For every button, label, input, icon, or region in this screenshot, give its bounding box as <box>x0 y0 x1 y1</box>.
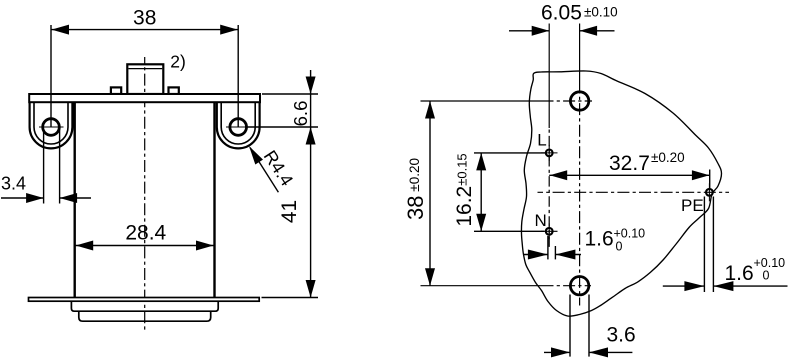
dim 32.7 extension line at PE <box>709 170 711 189</box>
svg-text:3.6: 3.6 <box>607 323 636 346</box>
hole centerline tick left <box>39 126 64 128</box>
dim 3.4 line with arrows <box>1 197 44 199</box>
bottom step 2 <box>79 311 211 321</box>
centerline vertical through holes <box>579 24 581 93</box>
mounting ear right (R4.4) <box>217 102 260 148</box>
dim 16.2 extension line at L <box>474 152 545 154</box>
centerline of left view body <box>144 57 146 330</box>
centerline horizontal through bottom hole <box>421 285 551 287</box>
dim 1.6 N extension lines <box>547 236 549 259</box>
mounting hole left d3.4 <box>43 119 60 136</box>
dim 1.6 PE line with arrows <box>663 285 705 287</box>
mounting ear left (R4.4) <box>30 102 73 148</box>
svg-text:N: N <box>535 211 547 230</box>
svg-text:0: 0 <box>616 240 623 254</box>
dim 16.2 line with arrows <box>480 153 482 231</box>
svg-text:6.05: 6.05 <box>541 1 582 24</box>
pin N circle and ticks <box>546 228 553 235</box>
small bump right on flange top <box>169 87 179 94</box>
bottom plate flange <box>29 298 260 302</box>
centerline horizontal main through PE <box>538 191 730 193</box>
dim 16.2 extension line at N <box>474 230 544 232</box>
svg-text:±0.10: ±0.10 <box>584 4 618 19</box>
svg-text:+0.10: +0.10 <box>614 227 646 241</box>
pin PE circle and tick <box>706 189 713 196</box>
dim 1.6 N line with arrows <box>523 254 548 256</box>
dim 32.7 line with arrows <box>549 174 710 176</box>
dim 3.6 line with arrows <box>544 351 570 353</box>
svg-text:L: L <box>537 131 546 150</box>
centerline vertical through pins L N <box>548 24 550 129</box>
dim 1.6 PE extension lines <box>703 197 705 293</box>
mounting hole right d3.4 <box>230 119 247 136</box>
dim 3.6 extension lines <box>569 295 571 357</box>
top protrusion (cover lug) 2) <box>127 64 163 94</box>
svg-text:±0.20: ±0.20 <box>651 150 685 165</box>
bottom step 1 <box>71 301 218 311</box>
extension line bottom plate to 41 dim <box>262 297 319 299</box>
top mounting hole d3.6 <box>570 92 588 110</box>
body right edge <box>213 102 215 297</box>
hole centerline tick right <box>226 126 251 128</box>
svg-text:41: 41 <box>278 200 301 223</box>
svg-text:3.4: 3.4 <box>1 173 26 193</box>
dim 28.4 line with arrows <box>75 245 215 247</box>
svg-text:0: 0 <box>763 269 770 283</box>
svg-text:2): 2) <box>170 51 186 71</box>
bottom mounting hole d3.6 <box>570 277 588 295</box>
dim 38 right view line with arrows <box>429 101 431 286</box>
svg-text:6.6: 6.6 <box>290 101 311 127</box>
svg-text:PE: PE <box>681 196 704 215</box>
svg-text:28.4: 28.4 <box>125 222 166 245</box>
dim line 6.6 and 41 vertical with arrows <box>310 70 312 298</box>
extension line hole center to 6.6 dim <box>247 126 318 128</box>
svg-text:32.7: 32.7 <box>609 152 650 175</box>
svg-text:1.6: 1.6 <box>725 262 754 285</box>
dim 3.4 extension lines <box>43 129 45 204</box>
svg-text:1.6: 1.6 <box>585 227 614 250</box>
leader line R4.4 <box>250 148 278 193</box>
dim 38 line with arrows <box>51 29 238 31</box>
centerline horizontal through top hole <box>421 100 551 102</box>
svg-text:38: 38 <box>133 7 156 30</box>
extension line flange top to 6.6 dim <box>262 93 318 95</box>
mounting flange plate <box>29 94 260 102</box>
dim 38 extension line right <box>237 25 239 127</box>
dim 6.05 line with arrows <box>509 30 549 32</box>
panel cutout blob outline <box>521 71 721 316</box>
pin L circle and ticks <box>546 150 553 157</box>
body left edge <box>73 102 75 297</box>
small bump left on flange top <box>111 87 121 94</box>
dim 38 extension line left <box>50 25 52 127</box>
